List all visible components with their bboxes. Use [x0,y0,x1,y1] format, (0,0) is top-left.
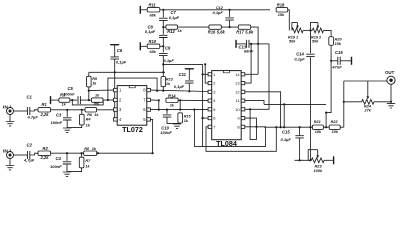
junction rail64 corner with pin6 [202,117,204,119]
junction pin6 line with C10 [166,109,168,111]
wire into TL084 pin 14 [245,73,258,75]
resistor R8 [84,151,97,155]
junction top line with C12 [229,9,231,11]
wire TL084 pin 12 line [245,92,281,127]
junction R24 line with riser [343,101,345,103]
junction node X (R3/C5/bypass) [71,99,73,101]
wire jack J1 ground stem [9,115,11,122]
pin 12 stub of TL084 [241,90,245,93]
wire R14 right corner down to pin6 line [178,100,180,110]
svg-text:4,7µF: 4,7µF [23,158,35,163]
svg-text:R15: R15 [184,114,192,118]
wire C2 to R2 [30,153,38,155]
op-amp U1 TL072 body [117,86,147,126]
svg-text:0,1µF: 0,1µF [213,10,224,15]
resistor R18 [276,8,288,12]
junction R14 corner [179,99,181,101]
wire R23 line [295,159,312,161]
wire R9 top to rail P [88,72,90,76]
pin 8 stub of TL084 [241,125,245,128]
wire TL072 pin 7 to R14 [150,99,159,101]
pin 4 stub of TL072 [114,118,118,121]
pin 3 stub of TL072 [114,108,118,111]
svg-text:10: 10 [235,107,240,112]
resistor R5 [91,98,103,102]
wire spine C7 segment [162,10,164,17]
svg-text:0,1µF: 0,1µF [294,57,305,62]
junction y104 with riser 284 [283,103,285,105]
wire loop A horizontal [194,127,265,147]
svg-text:C4: C4 [56,156,62,161]
capacitor C15 [295,136,304,138]
svg-text:68nF: 68nF [244,49,254,54]
wire C6 stem upper [114,45,116,57]
wire terminal to R3 [51,99,59,101]
terminal right of C16 [351,57,353,65]
svg-text:0,1µF: 0,1µF [281,137,292,142]
wire R24 line left [344,101,362,103]
wire TL072 pin 6 line to TL084 pin 5 [150,109,208,111]
wire R17 right corner down (to C13/pin14) [251,27,258,74]
potentiometer R24 element [362,99,374,104]
wire R19-2 right corner down to R20 [324,30,332,36]
wire C14 riser lower part [310,127,312,160]
wire R23 right to terminal [324,159,333,161]
ground below C4 and R7 [63,172,71,176]
wire R21/R22 row [264,126,344,128]
svg-text:R14: R14 [168,94,176,99]
svg-text:0,1µF: 0,1µF [145,29,156,34]
resistor R1 [38,108,51,112]
wire C1 to R1 [30,110,38,111]
svg-text:C15: C15 [282,130,290,135]
resistor R4 [80,114,85,125]
svg-text:R5: R5 [94,101,100,106]
wire R15 bottom to ground node [177,122,180,124]
wire C13 to R17 riser [249,43,258,45]
wire jack J2 ground stem [9,159,11,166]
wire C6 stem lower to TL072 pin 4 [114,59,116,119]
wire top line spine to R18 [163,9,270,11]
resistor R10 [147,44,160,48]
terminal for C13 [235,40,237,48]
wire R16 to R17 [221,26,238,28]
wire spine C8 to R10 node [162,37,164,52]
svg-text:R21: R21 [314,120,321,124]
svg-text:13: 13 [235,81,240,86]
pin 6 stub of TL084 [208,117,212,120]
pin 2 stub of TL084 [208,82,212,85]
wire R13 bottom to pin8 line [162,87,164,91]
wire R20/C16 riser down with jog [326,61,331,127]
junction R16/R17 row with C12 [229,26,231,28]
pin 11 stub of TL084 [241,99,245,102]
svg-text:R20: R20 [335,38,343,42]
svg-text:15k: 15k [335,42,342,46]
wire R14 node right to TL084 pin 4 [180,99,208,101]
junction C16 node [330,60,332,62]
wire y104 line to step [264,103,326,105]
svg-text:TL072: TL072 [122,125,143,134]
wire C10 bottom to ground node [167,117,177,123]
pin 8 stub of TL072 [147,88,151,91]
resistor R11 [147,8,160,12]
wire C16 left [331,60,338,62]
terminal above C6 [110,44,119,46]
svg-text:68k: 68k [150,50,157,54]
wire C10 stem [166,110,168,114]
wire R5 right to pin2 node [103,99,114,101]
wire C12 stem lower [229,20,231,27]
resistor R15 [178,113,183,123]
junction line B with pin5 riser [152,152,154,154]
wire line A down to C3 [66,110,68,117]
pin 4 stub of TL084 [208,99,212,102]
wire C11 stem lower to pin8 line [188,83,190,91]
wire J1 riser down to pin6 line [158,100,160,110]
ground below R24 right [387,104,395,108]
terminal for R11 [139,6,141,14]
svg-text:100nF: 100nF [51,120,63,125]
svg-text:47nF: 47nF [331,65,342,70]
resistor R14 [166,98,178,102]
junction pin1 line with R9 branch [88,90,90,92]
terminal right of R23 [333,156,335,164]
wire spine C7 to R12 node [162,20,164,34]
resistor R9 [87,76,92,87]
wire TL084 pin 9 to pin 8 [245,118,257,127]
svg-text:R18: R18 [277,2,285,7]
pin 6 stub of TL072 [147,108,151,111]
wiper loop of R23 [308,159,311,161]
junction pin8 wire with pin9 [255,126,257,128]
svg-text:R16: R16 [208,29,216,34]
wire R12 right to R16 [178,26,209,28]
junction spine with R12 row [162,26,164,28]
junction row between R21 and R22 [325,126,327,128]
pin 7 stub of TL072 [147,98,151,101]
svg-text:C2: C2 [27,143,33,148]
svg-text:50k: 50k [312,39,319,43]
junction node R4 on line A [81,109,83,111]
pin 5 stub of TL072 [147,118,151,121]
wire C11 stem upper [188,69,190,80]
junction J1 pin7/R14 [158,99,160,101]
junction pin10 wire with drop [249,108,251,110]
junction node R7 on line B [81,152,83,154]
wire pin 1 line [89,89,114,92]
pin 1 stub of TL084 [208,73,212,76]
junction pots midpoint [309,29,311,31]
wire rail 64.4 from spine down left of TL084 [163,64,202,146]
terminal for R3 (external) [50,96,52,104]
capacitor C11 [185,81,194,83]
svg-text:100nF: 100nF [160,130,172,135]
wire C13 line ext to pin10 riser [258,43,269,45]
svg-text:C11: C11 [179,72,187,77]
resistor R2 [38,151,51,155]
svg-text:R17: R17 [236,29,244,34]
svg-text:R10: R10 [149,39,157,44]
svg-text:C3: C3 [56,113,62,118]
junction pin8 line with riser [156,90,158,92]
resistor R22 [329,125,340,129]
svg-text:5,6k: 5,6k [217,29,226,34]
wiper loop of R19-1 [292,23,298,31]
capacitor C2 [27,151,29,159]
svg-text:2,2k: 2,2k [40,155,50,160]
junction rail P with C6 [114,71,116,73]
output jack OUT [387,76,395,84]
wiper arrow R19-2 [317,23,319,28]
svg-text:OUT: OUT [385,70,395,75]
wire terminal to C13 [236,43,247,45]
capacitor C8 [159,35,168,37]
potentiometer R19-2 element [312,28,323,33]
svg-text:C5: C5 [68,86,74,91]
wire R1 right along main line A to TL072 pin 3 [51,109,114,111]
junction TL084 pin1 wire [202,73,204,75]
wire bypass below C5/R5 (node X to pin2 node) [72,100,103,105]
svg-text:C1: C1 [27,95,33,100]
capacitor C16 [338,57,340,65]
wire pin9 riser extension [256,127,258,140]
svg-text:15k: 15k [278,13,285,17]
wire R24 right to ground node [374,101,391,103]
pin 7 stub of TL084 [208,125,212,128]
svg-text:27k: 27k [364,108,372,112]
svg-text:0,1µF: 0,1µF [164,58,175,63]
resistor R21 [312,125,323,129]
junction R23 line with C15 [299,159,301,161]
wire jack down to ground node [390,84,392,102]
wire R2 right along main line B [51,152,153,154]
svg-text:R1: R1 [42,102,48,107]
junction pin8 line with R13 [162,90,164,92]
junction spine with rail 64.4 [162,63,164,65]
wire C16 right to terminal [340,60,351,62]
pin 13 stub of TL084 [241,82,245,85]
svg-text:R11: R11 [149,2,157,7]
ground below jack J1 [6,122,14,126]
wire R7 bottom to ground node [67,168,82,172]
potentiometer R19-1 element [292,28,303,33]
svg-text:C16: C16 [335,50,343,55]
wiper arrow R19-1 [297,23,299,28]
junction pin2 node [107,99,109,101]
junction pin5 line with loop A riser [193,109,195,111]
svg-text:50k: 50k [289,39,296,43]
svg-text:10k: 10k [332,130,339,134]
svg-text:R22: R22 [331,120,339,124]
junction C13 line with R17 riser [257,43,259,45]
wire TL084 pin 2 riser [205,64,208,83]
wire R20 bottom to C16 node [330,45,332,61]
wiper arrow R23 [317,150,319,157]
junction row with C14 chain [309,126,311,128]
ground below C3 and R4 [63,128,71,132]
junction node Y (C5/R5/R9) [88,99,90,101]
junction R23 line with C14 riser [309,159,311,161]
wire C12 stem upper [229,10,231,17]
svg-text:R13: R13 [166,77,174,81]
svg-text:68k: 68k [150,13,157,17]
svg-text:0,1µF: 0,1µF [169,15,180,20]
wire jack J2 to C2 [14,154,28,156]
ground below jack J2 [6,166,14,170]
wire C15 stem lower to R23 line [299,138,301,161]
svg-text:R2: R2 [43,146,49,151]
wire R18 right corner down to pots [288,10,290,31]
pin 9 stub of TL084 [241,117,245,120]
wire riser y104 line to row [283,104,285,127]
wire pin8 line TL072 to TL084 pin 3 [150,90,208,91]
junction spine with R10 row [162,45,164,47]
svg-text:2,2k: 2,2k [40,112,50,117]
resistor R13 [161,77,166,87]
wire loop A left riser [193,110,195,147]
svg-text:0,1µF: 0,1µF [116,59,127,64]
capacitor C12 [225,18,234,20]
wire TL084 pin 10 riser up to C13 line [245,44,269,109]
wire R19-1 to R19-2 [303,29,312,31]
wire R10 to spine [160,45,164,47]
wiper loop of R19-2 [311,23,318,31]
junction rail 64.4 with pin2 riser [204,63,206,65]
svg-text:10k: 10k [315,130,322,134]
wire TL084 pin 11 to y104 line [245,101,264,105]
capacitor C7 [159,18,168,20]
wire into TL084 pin 1 [203,73,209,75]
wire C3 to ground [66,120,68,128]
resistor R6 [85,108,97,112]
junction pin8 line with C11 [188,90,190,92]
resistor R3 [59,98,70,102]
wire pin10 drop to under-IC corner [250,109,256,139]
op-amp U2 TL084 body [212,71,242,140]
wire line B down to C4 [66,153,68,161]
input jack J2 IN 1 (bottom) [7,152,14,159]
junction spine top (R11/line to R18) [162,9,164,11]
capacitor C6 [110,57,119,59]
wiper arrow R24 [367,81,369,98]
wire riser to TL072 pin 5 [151,119,153,153]
junction pin6 line with J1 riser [158,109,160,111]
wire TL084 pin 6 to riser [203,117,209,119]
input jack J1 IN 1 (top) [7,108,14,115]
junction node C3 on line A [66,109,68,111]
ground below C10/R15 [173,124,181,128]
potentiometer R23 element [311,158,324,163]
svg-text:4,7µF: 4,7µF [27,115,39,120]
wiper loop of R23 upper [308,150,318,161]
capacitor C4 [63,162,72,164]
terminal for R10 [139,42,141,50]
wire C4 to ground [66,164,68,172]
svg-text:100k: 100k [314,168,323,173]
svg-text:5,6k: 5,6k [245,29,254,34]
wire pin13 riser [245,44,251,83]
svg-text:R12: R12 [167,29,175,34]
junction pin6 line with R15/R14 [179,109,181,111]
wire loop pin2-riser to pin8-riser (y=78.1) [108,78,157,100]
junction row with C15 [299,126,301,128]
pin 1 stub of TL072 [114,88,118,91]
svg-text:100nF: 100nF [50,164,62,169]
pin 2 stub of TL072 [114,98,118,101]
wire R12 left to spine [163,26,166,28]
junction jack sleeve/ground [390,101,392,103]
resistor R7 [79,157,84,168]
svg-text:C14: C14 [296,51,304,56]
resistor R12 [166,25,178,29]
svg-text:C9: C9 [165,45,171,50]
junction step with riser [325,112,327,114]
junction C13 with pin13 riser [250,43,252,45]
svg-text:100nF: 100nF [63,91,75,96]
capacitor C13 [247,40,249,48]
junction after R8 on line B [97,152,99,154]
junction row with pin12 riser [280,126,282,128]
pin 3 stub of TL084 [208,90,212,93]
svg-text:12: 12 [235,89,240,94]
wire line B down to R7 [81,153,83,157]
pin 14 stub of TL084 [241,73,245,76]
wire riser x343.8 (jack line to row) [343,81,345,127]
wire R3 right to node X [70,99,77,101]
wire C14 down to R21 row [310,57,312,127]
wire R11 to spine top [160,9,164,11]
wire node Y up through pin1 line to R9 [88,87,90,100]
resistor R17 [238,25,250,29]
svg-text:0,1µF: 0,1µF [174,84,185,89]
wire R4 bottom to ground node [67,125,82,128]
svg-text:C6: C6 [117,48,123,53]
svg-text:14: 14 [235,72,240,77]
pin 10 stub of TL084 [241,108,245,111]
capacitor C14 [306,54,315,56]
junction row with loop B riser [275,126,277,128]
wire terminal to R10 [140,45,147,47]
wire line A down to R4 [81,110,83,115]
wire C15 stem upper [299,127,301,136]
junction pin6 with long riser [202,117,204,119]
terminal above C11 [185,68,194,70]
pin 5 stub of TL084 [208,108,212,111]
capacitor C9 [159,53,168,55]
resistor R20 [329,37,334,46]
junction rail P with spine/R13 [162,71,164,73]
capacitor C5 [78,96,80,104]
capacitor C1 [27,107,29,115]
junction node C4 on line B [66,152,68,154]
wire jack J1 to C1 [14,110,28,112]
wire spine C9 down to rails and R13 [162,56,164,82]
wire TL084 pin 7 to loop B [206,127,276,152]
wire C5 right to node Y [80,99,92,101]
resistor R16 [209,25,221,29]
wire jack line y81 [344,80,387,82]
wire rail P (R9/C6/R13) [89,71,165,73]
wire terminal to R11 [140,9,147,11]
junction row with R23-line riser [283,126,285,128]
wire pots midpoint down to C14 [310,30,312,53]
capacitor C10 [163,115,172,117]
capacitor C3 [63,118,71,120]
